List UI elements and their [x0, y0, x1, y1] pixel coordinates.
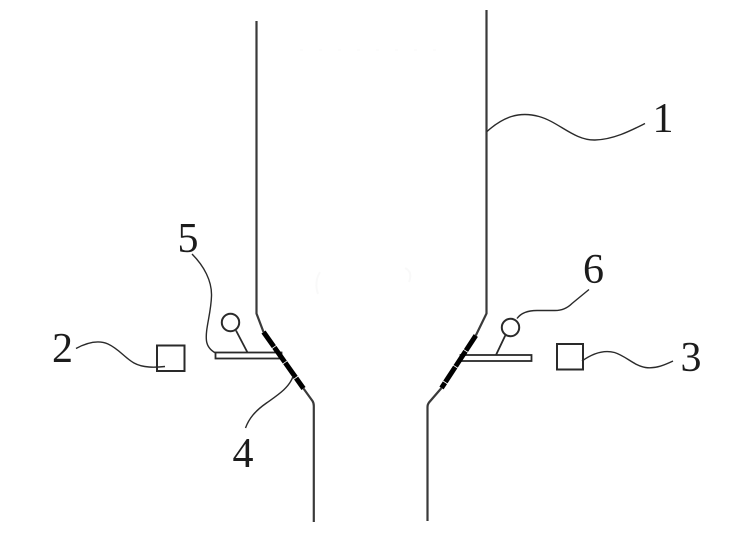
plate right (part 6 support) [461, 355, 532, 361]
label 3 [681, 335, 702, 381]
label 4 [233, 431, 254, 477]
leader line 2 [76, 342, 165, 367]
leader line 6 [517, 290, 589, 319]
svg-text:6: 6 [583, 247, 604, 293]
svg-text:4: 4 [233, 431, 254, 477]
label 1 [653, 96, 674, 142]
square box 2 [157, 346, 185, 372]
weld seam right (thick hatched diagonal) [442, 336, 476, 389]
wall left (upper vertical) [257, 21, 264, 332]
label 5 [178, 216, 199, 262]
svg-text:5: 5 [178, 216, 199, 262]
faint watermark remnants [300, 50, 450, 294]
leader line 3 [582, 352, 673, 368]
plate left (part 5 support) [216, 353, 282, 359]
wall left (lower vertical) [304, 389, 314, 523]
svg-text:1: 1 [653, 96, 674, 142]
svg-text:3: 3 [681, 335, 702, 381]
square box 3 [557, 344, 583, 370]
leader line 1 [487, 114, 645, 140]
probe circle right [496, 319, 519, 355]
wall right (lower vertical) [428, 388, 442, 521]
leader line 4 [246, 377, 294, 429]
label 2 [52, 326, 73, 372]
probe circle left [222, 314, 248, 353]
wall right (upper vertical) [476, 10, 487, 336]
leader line 5 [192, 254, 216, 353]
weld seam left (thick hatched diagonal, part 4) [264, 332, 304, 389]
label 6 [583, 247, 604, 293]
svg-text:2: 2 [52, 326, 73, 372]
